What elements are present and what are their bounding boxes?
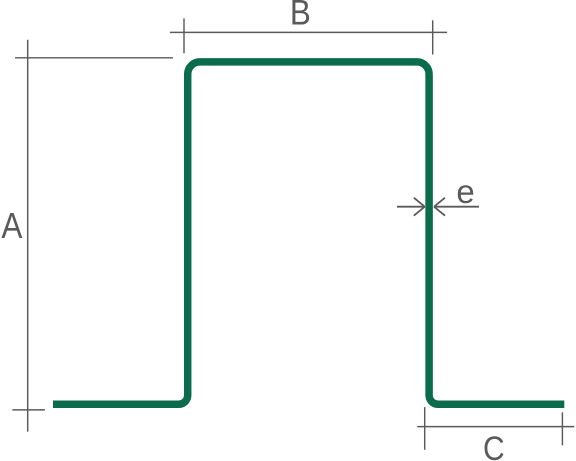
dimension C line <box>417 426 574 428</box>
label A <box>1 206 22 246</box>
dimension A vertical line <box>27 40 29 432</box>
dimension B line <box>170 31 447 33</box>
dimension A bottom tick <box>12 409 45 411</box>
label C <box>483 429 505 461</box>
dimension B right tick <box>432 20 434 54</box>
dimension C right tick <box>561 412 563 445</box>
dimension C left tick <box>424 407 426 450</box>
svg-text:B: B <box>290 0 311 33</box>
svg-text:e: e <box>456 173 474 210</box>
dimension B left tick <box>183 18 185 53</box>
thickness e right arrow <box>434 198 479 216</box>
svg-text:C: C <box>483 429 505 461</box>
label B <box>290 0 311 33</box>
hat profile outline (green) <box>53 62 564 404</box>
thickness e left arrow <box>397 198 425 216</box>
dimension A top witness line <box>15 57 173 59</box>
svg-text:A: A <box>1 206 22 246</box>
